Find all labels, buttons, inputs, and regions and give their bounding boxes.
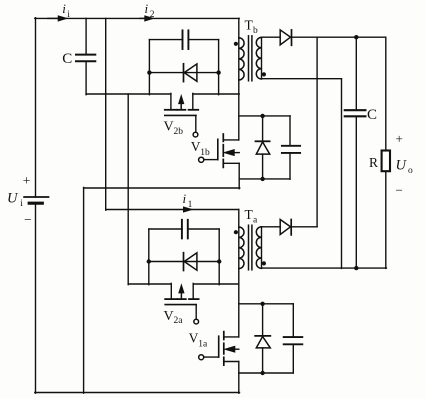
node clamp-b left junction bbox=[147, 70, 151, 74]
clamp capacitor Ca plates bbox=[181, 220, 183, 239]
svg-text:1a: 1a bbox=[198, 339, 208, 349]
transistor V2a gate lead bbox=[195, 305, 197, 320]
transistor V2b right leg bbox=[192, 93, 194, 109]
svg-text:2a: 2a bbox=[174, 316, 184, 326]
transistor V2a right leg bbox=[192, 283, 194, 298]
transistor V1a source down wire bbox=[238, 362, 240, 394]
battery Ui positive plate bbox=[24, 196, 48, 198]
snubber diode b cathode bar bbox=[256, 140, 270, 142]
wire snubber-b top bbox=[239, 115, 290, 117]
wire snubber-b bottom bbox=[239, 178, 290, 180]
snubber diode a lower lead bbox=[262, 348, 264, 374]
transformer Tb primary line bbox=[238, 18, 240, 140]
transformer Tb secondary line bbox=[261, 37, 263, 78]
snubber capacitor b plates bbox=[282, 145, 300, 147]
transformer Ta secondary dot bbox=[262, 261, 266, 265]
svg-text:+: + bbox=[396, 131, 403, 146]
svg-text:i: i bbox=[67, 10, 70, 20]
wire left rail lower bbox=[35, 203, 37, 393]
wire output right rail upper bbox=[385, 37, 387, 150]
clamp capacitor Cb plates bbox=[182, 30, 184, 49]
node output bottom junction bbox=[354, 266, 358, 270]
wire rectifier a to riser bbox=[291, 226, 317, 228]
capacitor C input plates bbox=[76, 54, 95, 56]
wire Tb secondary bottom bbox=[262, 78, 342, 80]
svg-text:C: C bbox=[62, 51, 72, 67]
transformer Ta primary line bbox=[238, 210, 240, 337]
svg-text:i: i bbox=[183, 191, 187, 206]
wire return horizontal bbox=[84, 187, 240, 189]
svg-text:C: C bbox=[367, 107, 377, 123]
svg-text:1: 1 bbox=[188, 200, 193, 210]
svg-text:V: V bbox=[164, 120, 174, 135]
node snubber-a bottom junction bbox=[260, 371, 264, 375]
svg-text:i: i bbox=[62, 1, 66, 16]
capacitor C output bottom lead bbox=[355, 116, 357, 268]
transistor V2b gate bar bbox=[165, 114, 196, 116]
capacitor C output top lead bbox=[355, 37, 357, 110]
wire rectifier b to output bbox=[292, 36, 386, 38]
transistor V1b drain lead bbox=[223, 139, 239, 141]
wire snubber-a top bbox=[239, 303, 293, 305]
node snubber-b bottom junction bbox=[260, 177, 264, 181]
snubber capacitor b top lead bbox=[289, 116, 291, 146]
wire vertical clamp-a feed bbox=[127, 94, 129, 285]
snubber capacitor a plates bbox=[284, 336, 303, 338]
transformer Ta secondary line bbox=[261, 227, 263, 268]
svg-text:V: V bbox=[189, 331, 199, 346]
clamp right vertical a bbox=[218, 229, 220, 285]
transistor V1b gate lead bbox=[204, 159, 218, 161]
wire top rail bbox=[35, 17, 239, 19]
transistor V2a gate bar bbox=[165, 304, 196, 306]
snubber diode a triangle bbox=[256, 337, 270, 348]
capacitor C input bottom lead bbox=[85, 61, 87, 94]
wire V2a source side bbox=[193, 283, 239, 285]
wire bottom rail bbox=[35, 392, 240, 394]
transistor V1a gate lead bbox=[204, 356, 219, 358]
node clamp-a left junction bbox=[147, 259, 151, 263]
transformer Tb primary dot bbox=[234, 42, 238, 46]
transformer Ta core bbox=[248, 225, 250, 270]
resistor R box bbox=[382, 151, 390, 172]
current arrow i1 bbox=[184, 207, 192, 212]
transformer Ta secondary winding bbox=[256, 227, 261, 269]
transistor V2b gate lead bbox=[195, 115, 197, 132]
clamp right vertical b bbox=[218, 40, 220, 95]
svg-text:V: V bbox=[191, 139, 201, 154]
transistor V2a middle bar bbox=[178, 298, 186, 300]
clamp diode Db cathode bar bbox=[183, 64, 185, 82]
svg-text:−: − bbox=[396, 183, 403, 198]
transistor V1b gate bar bbox=[217, 139, 219, 159]
clamp diode Da triangle bbox=[184, 253, 197, 270]
wire snubber-a bottom bbox=[239, 372, 293, 374]
transistor V2b middle bar bbox=[177, 109, 185, 111]
transistor V2b arrow bbox=[180, 102, 182, 110]
svg-text:+: + bbox=[23, 173, 31, 188]
svg-text:i: i bbox=[145, 1, 149, 16]
wire left rail upper bbox=[35, 18, 37, 197]
transistor V1b source down wire bbox=[238, 163, 240, 188]
clamp capacitor Cb top lead wires bbox=[149, 39, 182, 41]
transistor V2a left leg bbox=[170, 283, 172, 298]
transistor V1a body arrow bbox=[234, 348, 239, 350]
snubber diode a lead bbox=[262, 304, 264, 336]
snubber capacitor a bottom lead bbox=[292, 344, 294, 373]
clamp left vertical a bbox=[148, 229, 150, 285]
svg-text:b: b bbox=[253, 26, 258, 36]
transistor V1a drain lead bbox=[224, 336, 239, 338]
transistor V1a channel segments bbox=[223, 332, 225, 340]
svg-text:U: U bbox=[7, 191, 19, 207]
svg-text:U: U bbox=[396, 158, 408, 174]
rectifier diode VDb cathode bar bbox=[291, 30, 293, 45]
snubber capacitor b bottom lead bbox=[289, 153, 291, 179]
clamp capacitor Ca top lead wires bbox=[149, 228, 182, 230]
transistor V1b channel segments bbox=[222, 134, 224, 141]
terminal V2a gate circle bbox=[194, 319, 199, 324]
transformer Ta primary dot bbox=[234, 230, 238, 234]
transistor V2a arrow bbox=[180, 291, 182, 299]
wire output bottom rail bbox=[262, 267, 387, 269]
snubber capacitor a top lead bbox=[292, 304, 294, 337]
transformer Ta primary winding bbox=[239, 227, 244, 269]
clamp diode Db triangle bbox=[184, 64, 197, 81]
svg-text:i: i bbox=[20, 199, 23, 209]
svg-text:1b: 1b bbox=[200, 148, 210, 158]
transistor V2b left leg bbox=[170, 93, 172, 109]
clamp left vertical b bbox=[148, 40, 150, 95]
wire Ta secondary top bbox=[262, 226, 281, 228]
transformer Tb core bbox=[248, 36, 250, 81]
terminal V2b gate circle bbox=[193, 132, 198, 137]
svg-text:2: 2 bbox=[150, 10, 155, 20]
snubber diode b lower lead bbox=[262, 154, 264, 179]
current arrow i_2 bbox=[140, 17, 146, 19]
clamp diode Da wire bbox=[149, 261, 219, 263]
rectifier diode VDa triangle bbox=[280, 220, 290, 235]
rectifier diode VDa cathode bar bbox=[290, 220, 292, 235]
capacitor C output plates bbox=[345, 109, 366, 111]
clamp diode Db wire bbox=[149, 72, 218, 74]
battery Ui negative plate bbox=[29, 202, 42, 205]
svg-text:o: o bbox=[408, 166, 413, 176]
node snubber-b top junction bbox=[260, 114, 264, 118]
svg-text:V: V bbox=[164, 309, 174, 324]
node clamp-a right junction bbox=[217, 259, 221, 263]
wire V2b source side bbox=[193, 93, 239, 95]
terminal V1a gate circle bbox=[199, 355, 204, 360]
wire Tb secondary top bbox=[262, 36, 281, 38]
wire vertical to i1 node bbox=[105, 18, 107, 210]
svg-text:2b: 2b bbox=[174, 127, 184, 137]
terminal V1b gate circle bbox=[199, 157, 204, 162]
wire output right rail lower bbox=[385, 171, 387, 268]
wire return left vertical bbox=[83, 187, 85, 393]
current arrow i_i bbox=[48, 17, 60, 19]
node output top junction bbox=[354, 35, 358, 39]
clamp diode Da cathode bar bbox=[183, 253, 185, 271]
snubber diode a cathode bar bbox=[255, 335, 270, 337]
rectifier diode VDb triangle bbox=[280, 30, 290, 45]
transistor V1a gate bar bbox=[218, 336, 220, 357]
capacitor C input top lead bbox=[85, 18, 87, 54]
wire Tb secondary return vertical bbox=[341, 79, 343, 269]
wire V2a drain side bbox=[128, 283, 171, 285]
svg-text:−: − bbox=[24, 212, 32, 227]
snubber diode b lead bbox=[262, 116, 264, 141]
node clamp-b right junction bbox=[216, 70, 220, 74]
wire i1 horizontal bbox=[106, 209, 239, 211]
snubber diode b triangle bbox=[256, 142, 269, 154]
transformer Tb secondary winding bbox=[256, 37, 261, 79]
wire rectifier a riser vertical bbox=[316, 37, 318, 227]
svg-text:R: R bbox=[369, 155, 378, 170]
wire V2b drain side bbox=[86, 93, 171, 95]
transformer Tb primary winding bbox=[239, 38, 244, 80]
transistor V1a source lead bbox=[224, 361, 239, 363]
transistor V1b source lead bbox=[223, 162, 239, 164]
transformer Tb secondary dot bbox=[262, 72, 266, 76]
transistor V1b body arrow bbox=[233, 152, 239, 154]
node snubber-a top junction bbox=[260, 302, 264, 306]
